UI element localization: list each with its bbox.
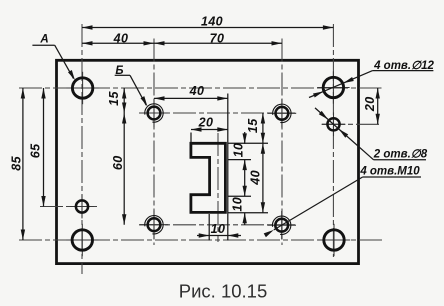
centerline horizontal M10 bottom row [139,224,295,226]
centerline vertical slot axis [217,133,219,242]
dimension 15 right [246,113,265,213]
centerline horizontal M10 top row [139,112,295,114]
dimension 40 right [249,143,266,212]
dimension 15 left [107,88,126,225]
svg-text:40: 40 [189,84,205,98]
dimension 10 upper right [232,132,247,225]
dimension 40 top-left [82,31,154,45]
svg-text:140: 140 [201,15,223,29]
svg-text:40: 40 [113,31,129,45]
hole O12 bottom-right [318,224,350,256]
svg-text:20: 20 [198,115,214,129]
centerline horizontal left hole8 [40,206,97,208]
svg-text:20: 20 [363,96,377,112]
centerline vertical M10 left column [153,39,155,246]
centerline horizontal top hole row [19,87,382,89]
label 2 holes O8 with leader [315,108,428,161]
hole M10 top-left B [140,99,169,128]
centerline horizontal right hole8 [322,123,382,125]
svg-text:А: А [39,34,48,46]
svg-text:10: 10 [231,197,245,212]
label A with leader [32,34,75,81]
dimension 60 left [111,113,126,225]
svg-text:2 отв.∅8: 2 отв.∅8 [373,149,428,161]
dimension 85 left [10,88,26,240]
svg-text:15: 15 [107,91,121,106]
svg-text:4 отв.М10: 4 отв.М10 [359,166,420,178]
svg-text:70: 70 [210,31,225,45]
dimension 10 lower right [231,186,247,224]
dimension 40 slot [154,84,228,101]
centerline vertical left hole column [81,24,83,274]
extension line right of slot y212 [228,212,268,214]
label 4 holes M10 with leader [264,166,421,238]
svg-text:40: 40 [249,170,263,186]
plate outline [57,60,359,263]
caption Ris 10.15 [179,281,268,302]
label B with leader [115,65,148,106]
hole O8 right [322,112,346,136]
centerline horizontal bottom hole row [19,239,385,241]
centerline vertical M10 right column [281,39,283,246]
hole O8 left [70,195,94,219]
hole M10 bottom-left [140,210,169,239]
central slot cutout [191,143,226,212]
extension line right of slot y143 [228,142,268,144]
extension line slot right column [227,94,229,241]
hole O12 bottom-left [66,224,98,256]
dimension 10 spine bottom [197,222,241,238]
centerline vertical right hole column [332,24,334,257]
hole M10 bottom-right [267,211,296,240]
extension line slot left top [190,133,192,144]
extension line spine left below [208,214,210,241]
dimension 20 right side [363,88,380,124]
extension line right of slot y159 [228,159,251,161]
hole M10 top-right [268,99,297,128]
svg-text:60: 60 [111,155,125,170]
extension line right of slot y196 [228,195,251,197]
dimension 20 slot [191,115,228,131]
svg-text:85: 85 [10,155,24,170]
dimension 70 top [154,31,282,45]
svg-text:15: 15 [246,118,260,133]
svg-text:Рис. 10.15: Рис. 10.15 [179,281,268,302]
hole O12 top-left A [66,72,98,104]
label 4 holes O12 with leader [309,60,434,98]
hole O12 top-right [317,71,349,103]
dimension 140 top [82,15,333,30]
svg-text:65: 65 [29,143,43,158]
dimension 65 left [29,88,46,207]
svg-text:10: 10 [211,222,226,236]
svg-text:10: 10 [232,143,246,158]
